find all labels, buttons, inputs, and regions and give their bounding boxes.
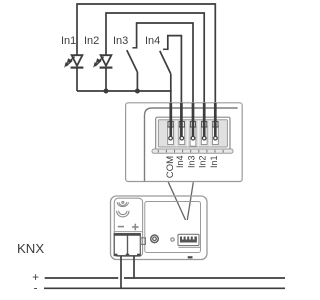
terminal In3 xyxy=(190,122,196,147)
wire In1 into terminal xyxy=(214,103,217,137)
device body xyxy=(111,196,208,260)
KNX minus line xyxy=(44,287,285,289)
wire In4 into terminal xyxy=(180,103,183,137)
terminal In2 xyxy=(201,122,207,145)
housing terminal dividers xyxy=(176,120,210,147)
block top thick edge xyxy=(114,234,141,236)
minus mark on device xyxy=(118,226,124,228)
svg-text:In2: In2 xyxy=(84,35,99,47)
connector housing inner xyxy=(158,120,227,147)
wire COM into terminal xyxy=(169,103,172,137)
device input connector xyxy=(178,234,199,245)
flange slots xyxy=(158,150,223,153)
wire In3 top xyxy=(137,23,193,104)
svg-text:In3: In3 xyxy=(187,155,197,168)
wire COM bus xyxy=(77,91,171,104)
svg-text:KNX: KNX xyxy=(17,241,44,256)
wire In4 top xyxy=(168,36,182,104)
switch S3 (In3) xyxy=(127,48,138,91)
svg-text:In1: In1 xyxy=(61,35,76,47)
KNX plus line xyxy=(45,277,285,279)
connector bottom flange xyxy=(152,149,233,153)
wire In3 into terminal xyxy=(192,103,195,137)
device left section xyxy=(114,198,142,256)
svg-text:-: - xyxy=(34,282,38,294)
device inner panel xyxy=(145,202,201,253)
junction dot In3/bus xyxy=(135,89,140,94)
callout line left xyxy=(168,182,185,220)
KNX terminal block left xyxy=(114,234,127,256)
LED window xyxy=(171,238,174,241)
junction dot In2/bus xyxy=(104,89,109,94)
svg-text:In1: In1 xyxy=(209,155,219,168)
bus wire plus (device to bus) xyxy=(133,256,135,278)
block feet xyxy=(114,254,140,256)
LED D2 xyxy=(94,55,113,91)
cable grip 1 xyxy=(117,201,129,206)
left section divider xyxy=(114,231,142,233)
wire In2 into terminal xyxy=(203,103,206,137)
cable grip 2 xyxy=(117,211,129,217)
svg-text:In2: In2 xyxy=(198,155,208,168)
terminal In1 xyxy=(213,122,219,145)
svg-text:In4: In4 xyxy=(175,155,185,168)
svg-text:In3: In3 xyxy=(113,35,128,47)
wire In2 loop (top) xyxy=(106,13,204,104)
terminal COM xyxy=(168,122,174,145)
callout line right xyxy=(187,182,193,220)
clip tab xyxy=(141,238,146,245)
svg-text:In4: In4 xyxy=(145,35,160,47)
plus mark on device xyxy=(132,224,139,231)
connector teeth xyxy=(180,237,197,243)
bottom edge label xyxy=(188,256,193,258)
programming button xyxy=(151,235,159,243)
device edge contour in detail view xyxy=(145,108,238,182)
switch S4 (In4) xyxy=(160,49,171,92)
detail view frame xyxy=(126,103,243,182)
terminal In4 xyxy=(179,122,185,145)
wire In1 loop (top) xyxy=(77,4,215,104)
connector housing outer xyxy=(156,117,230,149)
LED D1 xyxy=(65,55,84,91)
bus wire minus (device to bus) xyxy=(120,256,122,288)
KNX terminal block right xyxy=(128,234,141,256)
connector base line xyxy=(179,246,201,248)
